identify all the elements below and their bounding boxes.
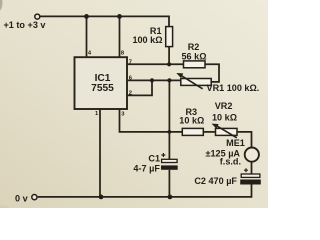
svg-text:100 kΩ: 100 kΩ: [132, 35, 162, 45]
svg-text:ME1: ME1: [226, 138, 245, 148]
svg-text:7: 7: [129, 59, 132, 65]
svg-text:C1: C1: [148, 154, 160, 164]
svg-text:10 kΩ: 10 kΩ: [179, 116, 204, 126]
svg-text:VR2: VR2: [215, 101, 233, 111]
svg-text:+1 to +3 v: +1 to +3 v: [4, 20, 47, 30]
svg-text:VR1 100 kΩ.: VR1 100 kΩ.: [207, 83, 260, 93]
svg-text:4-7 µF: 4-7 µF: [133, 163, 160, 173]
svg-text:56 kΩ: 56 kΩ: [182, 52, 207, 62]
svg-text:f.s.d.: f.s.d.: [220, 157, 241, 167]
svg-text:10 kΩ: 10 kΩ: [212, 112, 237, 122]
svg-text:C2 470 µF: C2 470 µF: [194, 176, 237, 186]
svg-text:2: 2: [129, 91, 132, 97]
svg-text:0 v: 0 v: [15, 193, 29, 203]
svg-text:7555: 7555: [91, 83, 114, 94]
